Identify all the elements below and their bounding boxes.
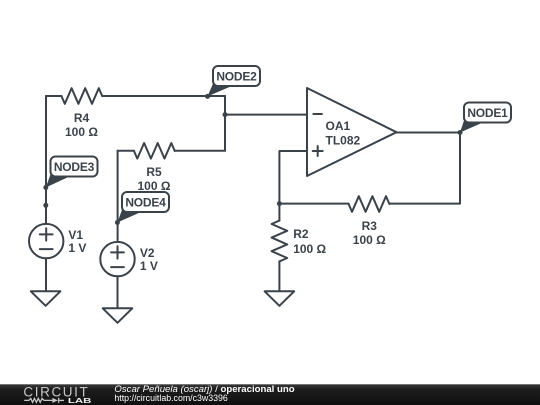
op-amp plus input mark (313, 146, 323, 156)
label R2 value (293, 227, 326, 256)
node NODE1 (460, 103, 511, 133)
voltage source V1 (29, 224, 63, 258)
svg-text:100 Ω: 100 Ω (65, 125, 98, 139)
junction dot NODE1 (458, 130, 463, 135)
wire (117, 276, 119, 308)
wire (45, 258, 47, 291)
node NODE3 (46, 157, 98, 188)
resistor R3 (349, 196, 390, 212)
wire (279, 151, 307, 204)
op-amp minus input mark (313, 113, 322, 115)
ground (31, 291, 61, 306)
svg-text:TL082: TL082 (326, 133, 361, 147)
label OA1 TL082 (326, 119, 361, 147)
svg-text:V2: V2 (140, 246, 155, 260)
svg-text:100 Ω: 100 Ω (293, 242, 326, 256)
wire (389, 133, 460, 204)
svg-text:100 Ω: 100 Ω (353, 233, 386, 247)
svg-text:100 Ω: 100 Ω (138, 179, 171, 193)
resistor R4 (61, 88, 102, 104)
resistor R2 (272, 221, 288, 262)
junction dot op-amp inverting branch (223, 112, 228, 117)
svg-text:OA1: OA1 (326, 119, 351, 133)
svg-text:LAB: LAB (68, 396, 92, 405)
junction dot NODE3 (43, 185, 48, 190)
wire (397, 132, 461, 134)
svg-text:V1: V1 (68, 228, 83, 242)
node NODE2 (208, 66, 261, 96)
label R5 value (138, 165, 171, 193)
junction dot V1 wire (43, 203, 48, 208)
svg-text:NODE4: NODE4 (125, 195, 166, 209)
svg-text:NODE3: NODE3 (54, 160, 95, 174)
wire (278, 204, 280, 221)
wire (118, 150, 134, 152)
footer bar (0, 384, 540, 405)
svg-text:R2: R2 (293, 227, 309, 241)
wire (225, 114, 307, 116)
voltage source V2 (100, 242, 134, 276)
label R3 value (353, 219, 386, 247)
svg-text:R5: R5 (146, 165, 162, 179)
svg-text:NODE1: NODE1 (467, 106, 508, 120)
junction dot NODE2 (205, 94, 210, 99)
op-amp OA1 (307, 88, 397, 176)
wire (102, 95, 225, 97)
wire (278, 261, 280, 291)
ground (103, 308, 133, 323)
wire (175, 150, 225, 152)
svg-text:http://circuitlab.com/c3w3396: http://circuitlab.com/c3w3396 (114, 393, 228, 403)
node NODE4 (117, 192, 169, 223)
label V2 value (140, 246, 158, 273)
svg-text:R4: R4 (74, 111, 90, 125)
wire (45, 96, 47, 224)
resistor R5 (134, 143, 175, 159)
wire (46, 95, 61, 97)
label V1 value (68, 228, 86, 255)
svg-text:1 V: 1 V (140, 259, 158, 273)
svg-text:1 V: 1 V (68, 241, 86, 255)
wire (117, 151, 119, 241)
wire (279, 203, 348, 205)
junction dot NODE4 (115, 220, 120, 225)
svg-text:R3: R3 (362, 219, 378, 233)
label R4 value (65, 111, 98, 139)
svg-text:NODE2: NODE2 (216, 69, 257, 83)
wire (224, 96, 226, 151)
CircuitLab logo schematic glyph (24, 398, 64, 403)
junction dot feedback node (277, 201, 282, 206)
ground (265, 291, 295, 306)
